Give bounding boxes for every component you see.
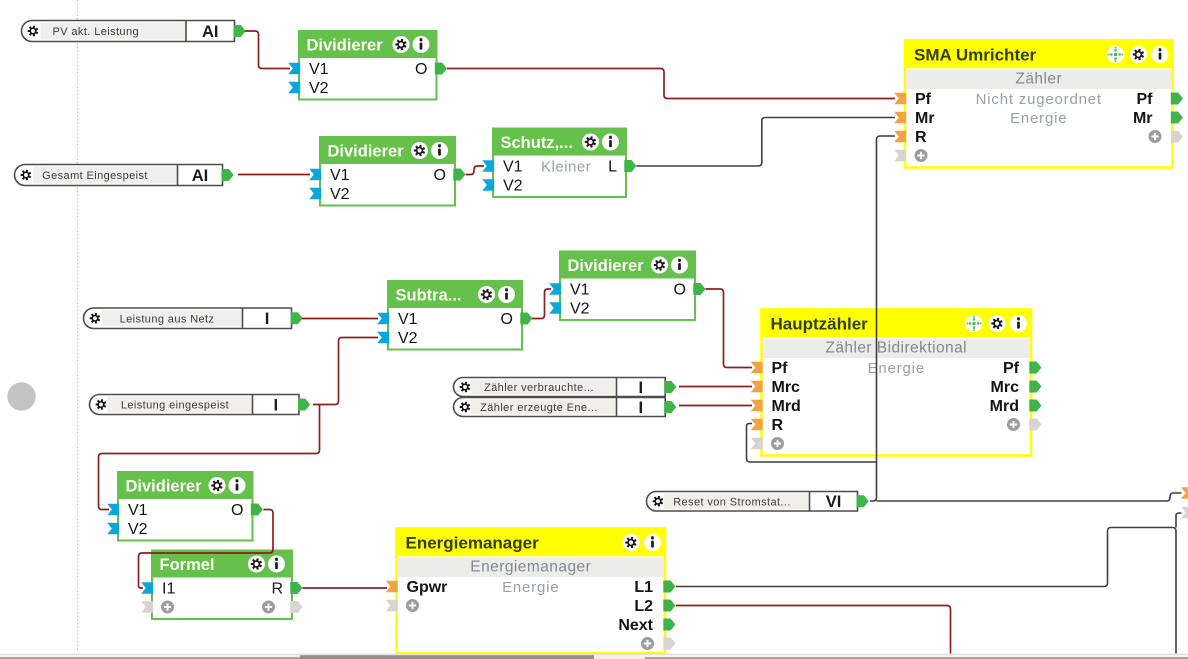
- svg-text:V1: V1: [330, 167, 350, 184]
- svg-text:I: I: [639, 399, 644, 417]
- svg-text:O: O: [434, 167, 446, 184]
- svg-text:V2: V2: [330, 186, 350, 203]
- svg-text:Dividierer: Dividierer: [126, 478, 203, 496]
- svg-text:V1: V1: [128, 502, 148, 519]
- svg-text:V2: V2: [570, 301, 590, 318]
- svg-text:V2: V2: [398, 330, 418, 347]
- svg-text:Mr: Mr: [915, 110, 935, 127]
- svg-text:Formel: Formel: [160, 556, 215, 574]
- svg-text:L: L: [608, 159, 617, 176]
- svg-text:Energie: Energie: [1010, 110, 1067, 127]
- svg-text:V1: V1: [398, 311, 418, 328]
- svg-text:Nicht zugeordnet: Nicht zugeordnet: [976, 91, 1102, 108]
- svg-text:Zähler: Zähler: [1015, 71, 1062, 88]
- svg-text:O: O: [674, 282, 686, 299]
- svg-text:L2: L2: [634, 598, 653, 615]
- svg-text:VI: VI: [826, 493, 842, 511]
- svg-text:AI: AI: [202, 23, 219, 41]
- svg-text:Mr: Mr: [1133, 110, 1153, 127]
- svg-text:Kleiner: Kleiner: [541, 159, 591, 176]
- svg-text:Hauptzähler: Hauptzähler: [771, 315, 869, 334]
- svg-text:Reset von Stromstat...: Reset von Stromstat...: [673, 496, 791, 508]
- svg-text:Pf: Pf: [915, 91, 932, 108]
- svg-text:Leistung eingespeist: Leistung eingespeist: [121, 400, 229, 412]
- svg-text:Mrc: Mrc: [991, 379, 1020, 396]
- svg-text:V2: V2: [503, 178, 523, 195]
- svg-text:Pf: Pf: [1003, 360, 1020, 377]
- svg-text:O: O: [501, 311, 513, 328]
- svg-text:I: I: [265, 310, 270, 328]
- svg-text:O: O: [415, 61, 427, 78]
- svg-text:Subtra...: Subtra...: [396, 287, 462, 305]
- svg-text:Next: Next: [618, 617, 653, 634]
- svg-text:Gpwr: Gpwr: [407, 579, 448, 596]
- svg-text:Dividierer: Dividierer: [328, 143, 405, 161]
- svg-text:Energie: Energie: [502, 579, 559, 596]
- svg-text:O: O: [231, 502, 243, 519]
- svg-text:V1: V1: [309, 61, 329, 78]
- svg-text:I: I: [639, 379, 644, 397]
- svg-text:Dividierer: Dividierer: [568, 257, 645, 275]
- svg-text:SMA Umrichter: SMA Umrichter: [914, 46, 1037, 65]
- svg-text:I1: I1: [162, 581, 175, 598]
- svg-text:Energiemanager: Energiemanager: [470, 559, 591, 576]
- svg-text:R: R: [915, 129, 927, 146]
- svg-text:Dividierer: Dividierer: [307, 37, 384, 55]
- svg-text:Zähler verbrauchte...: Zähler verbrauchte...: [484, 382, 594, 394]
- svg-text:Gesamt Eingespeist: Gesamt Eingespeist: [42, 170, 148, 182]
- svg-text:AI: AI: [192, 167, 209, 185]
- svg-text:Mrc: Mrc: [772, 379, 801, 396]
- svg-text:Energiemanager: Energiemanager: [406, 534, 540, 553]
- svg-text:Mrd: Mrd: [990, 398, 1019, 415]
- svg-text:L1: L1: [634, 579, 653, 596]
- svg-text:Mrd: Mrd: [772, 398, 801, 415]
- svg-text:Schutz,...: Schutz,...: [501, 134, 573, 152]
- svg-text:V2: V2: [128, 521, 148, 538]
- svg-text:Pf: Pf: [1137, 91, 1154, 108]
- svg-text:Zähler Bidirektional: Zähler Bidirektional: [825, 340, 967, 357]
- svg-text:V1: V1: [503, 159, 523, 176]
- svg-text:R: R: [271, 581, 283, 598]
- svg-text:I: I: [273, 396, 278, 414]
- svg-text:PV akt. Leistung: PV akt. Leistung: [52, 26, 139, 38]
- svg-text:V1: V1: [570, 282, 590, 299]
- svg-text:V2: V2: [309, 80, 329, 97]
- svg-text:Zähler erzeugte Ene...: Zähler erzeugte Ene...: [480, 402, 598, 414]
- svg-text:R: R: [772, 417, 784, 434]
- svg-text:Pf: Pf: [772, 360, 789, 377]
- svg-text:Leistung aus Netz: Leistung aus Netz: [120, 313, 215, 325]
